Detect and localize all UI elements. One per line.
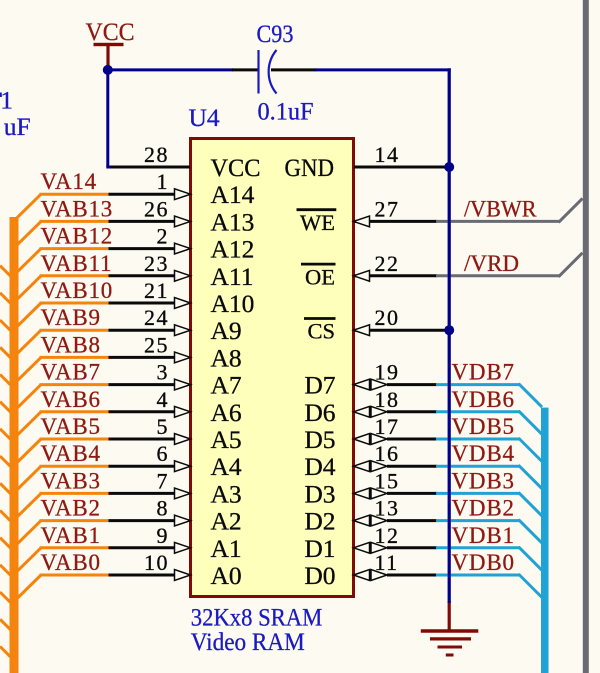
svg-text:A2: A2 (211, 507, 242, 536)
control bus (gray) vertical (583, 0, 589, 673)
chip pin name A5 (211, 425, 242, 454)
net label /VBWR (464, 196, 537, 221)
wire VAB11 bus entry diagonal (14, 276, 42, 303)
pin 10 input arrow (175, 570, 191, 581)
svg-text:VAB7: VAB7 (41, 360, 101, 385)
net label VAB13 (41, 196, 114, 221)
wire pin 3 stub (109, 383, 176, 386)
capacitor C91 partial value label 0.1uF (4, 112, 31, 141)
wire capacitor C93 left pin (232, 68, 258, 71)
wire VAB0 bus entry diagonal (14, 575, 42, 602)
svg-text:13: 13 (375, 496, 400, 521)
wire VAB2 horizontal orange (40, 519, 110, 522)
wire /VBWR diagonal to bus (559, 198, 583, 222)
svg-text:VDB5: VDB5 (452, 414, 515, 439)
wire pin 13 stub (387, 519, 437, 522)
pin 15 bidirectional arrow (354, 488, 388, 499)
wire pin 15 stub (387, 492, 437, 495)
wire pin 26 stub (109, 220, 176, 223)
svg-text:uF: uF (4, 112, 31, 141)
pin number 2 (157, 224, 170, 249)
net label VAB4 (41, 441, 101, 466)
pin 25 input arrow (175, 352, 191, 363)
svg-text:28: 28 (144, 142, 169, 167)
svg-text:22: 22 (375, 251, 400, 276)
wire VAB13 horizontal orange (40, 220, 110, 223)
power symbol VCC bar (94, 43, 124, 46)
chip pin name A4 (211, 452, 242, 481)
wire pin 17 stub (387, 438, 437, 441)
svg-text:21: 21 (144, 278, 169, 303)
wire pin 9 stub (109, 546, 176, 549)
address bus entries from left edge (0, 266, 12, 658)
svg-text:A6: A6 (211, 398, 242, 427)
wire VAB4 horizontal orange (40, 465, 110, 468)
svg-text:1: 1 (157, 169, 170, 194)
pin number 27 (375, 196, 400, 221)
wire pin 22 OE stub (354, 274, 437, 277)
svg-text:U4: U4 (189, 103, 220, 132)
wire VDB1 horizontal (cyan) (436, 546, 520, 549)
svg-text:D6: D6 (304, 398, 335, 427)
chip pin name A1 (211, 534, 242, 563)
chip pin name A8 (211, 343, 242, 372)
svg-text:Video RAM: Video RAM (191, 627, 305, 656)
svg-text:17: 17 (375, 414, 400, 439)
svg-text:4: 4 (157, 387, 170, 412)
chip pin name D3 (304, 479, 335, 508)
svg-text:VAB13: VAB13 (41, 196, 114, 221)
wire VAB6 bus entry diagonal (14, 412, 42, 439)
chip pin name A11 (211, 262, 254, 291)
pin 24 input arrow (175, 325, 191, 336)
net label VDB0 (452, 550, 515, 575)
pin 2 input arrow (175, 243, 191, 254)
pin 22 input arrow (354, 270, 370, 281)
svg-text:A7: A7 (211, 371, 242, 400)
chip pin name A14 (211, 180, 255, 209)
chip pin name A12 (211, 235, 255, 264)
wire pin 18 stub (387, 410, 437, 413)
svg-text:A3: A3 (211, 479, 242, 508)
chip pin name D4 (304, 452, 335, 481)
wire VAB12 horizontal orange (40, 247, 110, 250)
wire pin 12 stub (387, 546, 437, 549)
pin number 3 (157, 360, 170, 385)
wire /VRD diagonal to bus (559, 253, 583, 277)
net label VAB7 (41, 360, 101, 385)
wire pin 27 WE stub (354, 220, 437, 223)
svg-text:/VBWR: /VBWR (464, 196, 537, 221)
pin number 25 (144, 332, 169, 357)
wire pin 24 stub (109, 329, 176, 332)
wire VAB5 bus entry diagonal (14, 439, 42, 466)
wire VAB1 bus entry diagonal (14, 548, 42, 575)
wire VA14 horizontal orange (40, 193, 110, 196)
wire VAB5 horizontal orange (40, 438, 110, 441)
wire pin 28 VCC stub (111, 166, 190, 169)
ground bar 1 (421, 629, 479, 632)
wire pin 4 stub (109, 410, 176, 413)
wire pin 25 stub (109, 356, 176, 359)
svg-text:D7: D7 (304, 371, 335, 400)
svg-text:11: 11 (375, 550, 399, 575)
wire pin 6 stub (109, 465, 176, 468)
wire GND net vertical overlay (448, 68, 451, 603)
pin number 7 (157, 468, 170, 493)
svg-text:25: 25 (144, 332, 169, 357)
pin number 17 (375, 414, 400, 439)
wire pin 21 stub (109, 302, 176, 305)
wire GND net vertical (448, 68, 451, 603)
net label VAB3 (41, 468, 101, 493)
wire VAB7 horizontal orange (40, 383, 110, 386)
chip pin name A7 (211, 371, 242, 400)
pin 7 input arrow (175, 488, 191, 499)
pin 27 input arrow (354, 216, 370, 227)
svg-text:CS: CS (307, 319, 335, 344)
wire pin 10 stub (109, 574, 176, 577)
svg-text:A4: A4 (211, 452, 242, 481)
capacitor C93 plate left (257, 50, 259, 94)
svg-text:A13: A13 (211, 207, 255, 236)
net label VAB1 (41, 523, 101, 548)
svg-text:VAB2: VAB2 (41, 496, 101, 521)
pin number 18 (375, 387, 400, 412)
svg-text:GND: GND (285, 153, 335, 182)
svg-text:VDB1: VDB1 (452, 523, 515, 548)
svg-text:A10: A10 (211, 289, 255, 318)
svg-text:VDB2: VDB2 (452, 496, 515, 521)
ground bar 2 (430, 637, 471, 640)
pin 18 bidirectional arrow (354, 406, 388, 417)
svg-text:C91: C91 (0, 86, 13, 115)
svg-text:26: 26 (144, 196, 169, 221)
svg-text:A8: A8 (211, 343, 242, 372)
svg-text:16: 16 (375, 441, 400, 466)
net label VDB4 (452, 441, 515, 466)
wire VAB4 bus entry diagonal (14, 466, 42, 493)
svg-text:27: 27 (375, 196, 400, 221)
chip type label 32Kx8 SRAM (191, 602, 322, 631)
wire VAB6 horizontal orange (40, 410, 110, 413)
svg-text:VAB11: VAB11 (41, 251, 113, 276)
svg-text:20: 20 (375, 305, 400, 330)
chip pin name A0 (211, 561, 242, 590)
pin number 13 (375, 496, 400, 521)
net label VDB7 (452, 360, 515, 385)
svg-text:D1: D1 (304, 534, 335, 563)
wire pin 2 stub (109, 247, 176, 250)
pin number 24 (144, 305, 169, 330)
pin number 4 (157, 387, 170, 412)
svg-text:23: 23 (144, 251, 169, 276)
svg-text:18: 18 (375, 387, 400, 412)
wire VDB6 horizontal (cyan) (436, 410, 520, 413)
ground stem (448, 601, 451, 631)
svg-text:VAB0: VAB0 (41, 550, 101, 575)
svg-text:VDB4: VDB4 (452, 441, 515, 466)
chip pin name A2 (211, 507, 242, 536)
net label VAB8 (41, 332, 101, 357)
svg-text:VAB1: VAB1 (41, 523, 101, 548)
wire VAB10 bus entry diagonal (14, 303, 42, 330)
chip pin name D1 (304, 534, 335, 563)
chip pin name A9 (211, 316, 242, 345)
ground bar 3 (438, 646, 463, 649)
svg-text:3: 3 (157, 360, 170, 385)
svg-text:12: 12 (375, 523, 400, 548)
svg-text:VCC: VCC (211, 153, 261, 182)
wire pin 23 stub (109, 274, 176, 277)
chip U4 designator label (189, 103, 220, 132)
ground bar 4 (446, 654, 454, 657)
chip type label Video RAM (191, 627, 305, 656)
pin number 5 (157, 414, 170, 439)
wire VDB7 horizontal (cyan) (436, 383, 520, 386)
wire VDB7 diagonal to data bus (519, 384, 543, 408)
wire pin 8 stub (109, 519, 176, 522)
wire VDB3 horizontal (cyan) (436, 492, 520, 495)
wire pin 5 stub (109, 438, 176, 441)
pin number 26 (144, 196, 169, 221)
wire /VRD horizontal (gray) (436, 274, 560, 277)
net label VAB9 (41, 305, 101, 330)
svg-text:VAB6: VAB6 (41, 387, 101, 412)
svg-text:VA14: VA14 (41, 169, 97, 194)
wire VDB2 horizontal (cyan) (436, 519, 520, 522)
wire VDB4 diagonal to data bus (519, 465, 543, 489)
wire VAB9 bus entry diagonal (14, 330, 42, 357)
pin number 14 (375, 142, 400, 167)
SRAM chip U4 body (191, 139, 354, 597)
chip pin name CS (active low) (304, 319, 336, 344)
wire VAB9 horizontal orange (40, 329, 110, 332)
wire pin 1 stub (109, 193, 176, 196)
chip pin name OE (active low) (301, 264, 336, 289)
capacitor C93 value label 0.1uF (258, 97, 314, 126)
svg-text:VDB0: VDB0 (452, 550, 515, 575)
chip pin name VCC (211, 153, 261, 182)
pin number 8 (157, 496, 170, 521)
pin 3 input arrow (175, 379, 191, 390)
data bus (cyan) vertical (541, 408, 549, 673)
svg-text:VDB7: VDB7 (452, 360, 515, 385)
chip pin name A3 (211, 479, 242, 508)
svg-text:VAB9: VAB9 (41, 305, 101, 330)
pin 21 input arrow (175, 298, 191, 309)
wire VAB11 horizontal orange (40, 274, 110, 277)
svg-text:10: 10 (144, 550, 169, 575)
chip pin name A6 (211, 398, 242, 427)
pin number 19 (375, 360, 400, 385)
wire VAB8 horizontal orange (40, 356, 110, 359)
wire capacitor to GND net vertical (315, 68, 451, 71)
pin number 12 (375, 523, 400, 548)
svg-text:19: 19 (375, 360, 400, 385)
svg-text:14: 14 (375, 142, 400, 167)
wire VAB10 horizontal orange (40, 302, 110, 305)
wire pin 19 stub (387, 383, 437, 386)
pin number 28 (144, 142, 169, 167)
net label VDB1 (452, 523, 515, 548)
net label /VRD (464, 251, 519, 276)
net label VAB2 (41, 496, 101, 521)
pin number 23 (144, 251, 169, 276)
pin 1 input arrow (175, 189, 191, 200)
wire pin 11 stub (387, 574, 437, 577)
wire VDB2 diagonal to data bus (519, 520, 543, 544)
svg-text:A0: A0 (211, 561, 242, 590)
svg-text:5: 5 (157, 414, 170, 439)
wire VAB8 bus entry diagonal (14, 357, 42, 384)
wire pin 14 GND stub (354, 166, 447, 169)
svg-text:VDB6: VDB6 (452, 387, 515, 412)
net label VDB5 (452, 414, 515, 439)
pin 4 input arrow (175, 406, 191, 417)
pin number 9 (157, 523, 170, 548)
chip pin name D5 (304, 425, 335, 454)
pin 12 bidirectional arrow (354, 542, 388, 553)
wire VDB5 horizontal (cyan) (436, 438, 520, 441)
pin number 20 (375, 305, 400, 330)
svg-text:A11: A11 (211, 262, 254, 291)
wire VAB3 bus entry diagonal (14, 493, 42, 520)
wire VAB0 horizontal orange (40, 574, 110, 577)
address bus (orange) vertical (10, 217, 19, 673)
svg-text:7: 7 (157, 468, 170, 493)
svg-text:C93: C93 (257, 19, 294, 48)
wire VDB6 diagonal to data bus (519, 411, 543, 435)
svg-text:OE: OE (305, 264, 335, 289)
svg-text:VAB3: VAB3 (41, 468, 101, 493)
pin number 16 (375, 441, 400, 466)
pin number 21 (144, 278, 169, 303)
wire VDB5 diagonal to data bus (519, 438, 543, 462)
pin 26 input arrow (175, 216, 191, 227)
wire VDB3 diagonal to data bus (519, 492, 543, 516)
capacitor C93 plate right (curved) (269, 50, 277, 94)
pin 11 bidirectional arrow (354, 570, 388, 581)
net label VDB3 (452, 468, 515, 493)
svg-text:15: 15 (375, 468, 400, 493)
junction GND net at pin 14 (444, 162, 454, 172)
net label VDB6 (452, 387, 515, 412)
svg-text:VDB3: VDB3 (452, 468, 515, 493)
pin number 6 (157, 441, 170, 466)
svg-text:D5: D5 (304, 425, 335, 454)
svg-text:6: 6 (157, 441, 170, 466)
wire VA14 bus entry diagonal (14, 194, 42, 221)
pin 5 input arrow (175, 434, 191, 445)
svg-text:WE: WE (300, 210, 335, 235)
svg-text:9: 9 (157, 523, 170, 548)
chip pin name D6 (304, 398, 335, 427)
pin 23 input arrow (175, 270, 191, 281)
svg-text:A5: A5 (211, 425, 242, 454)
net label VAB6 (41, 387, 101, 412)
net label VDB2 (452, 496, 515, 521)
chip pin name D0 (304, 561, 335, 590)
svg-text:0.1uF: 0.1uF (258, 97, 314, 126)
pin 17 bidirectional arrow (354, 434, 388, 445)
svg-text:D2: D2 (304, 507, 335, 536)
wire VDB4 horizontal (cyan) (436, 465, 520, 468)
svg-text:VAB10: VAB10 (41, 278, 114, 303)
capacitor C91 partial designator label (0, 86, 13, 115)
wire pin 20 CS stub (354, 329, 447, 332)
chip pin name D2 (304, 507, 335, 536)
pin 6 input arrow (175, 461, 191, 472)
wire VAB7 bus entry diagonal (14, 385, 42, 412)
pin number 10 (144, 550, 169, 575)
wire VDB0 diagonal to data bus (519, 574, 543, 598)
wire VCC net junction to capacitor (108, 68, 233, 71)
net label VAB11 (41, 251, 113, 276)
svg-text:VAB8: VAB8 (41, 332, 101, 357)
svg-text:A12: A12 (211, 235, 255, 264)
pin number 22 (375, 251, 400, 276)
chip pin name GND (285, 153, 335, 182)
svg-text:A14: A14 (211, 180, 255, 209)
wire VAB2 bus entry diagonal (14, 521, 42, 548)
svg-text:/VRD: /VRD (464, 251, 519, 276)
net label VAB10 (41, 278, 114, 303)
chip pin name WE (active low) (297, 210, 337, 235)
svg-text:D3: D3 (304, 479, 335, 508)
pin 16 bidirectional arrow (354, 461, 388, 472)
wire VCC net vertical to pin 28 (106, 70, 112, 167)
wire /VBWR horizontal (gray) (436, 220, 560, 223)
svg-text:A1: A1 (211, 534, 242, 563)
net label VAB12 (41, 224, 114, 249)
junction VCC node (103, 65, 113, 75)
wire VDB0 horizontal (cyan) (436, 574, 520, 577)
svg-text:VAB5: VAB5 (41, 414, 101, 439)
svg-text:2: 2 (157, 224, 170, 249)
wire VAB1 horizontal orange (40, 546, 110, 549)
svg-text:A9: A9 (211, 316, 242, 345)
wire pin 16 stub (387, 465, 437, 468)
chip pin name A10 (211, 289, 255, 318)
pin 20 input arrow (354, 325, 370, 336)
svg-text:VAB4: VAB4 (41, 441, 101, 466)
pin number 15 (375, 468, 400, 493)
svg-text:D4: D4 (304, 452, 335, 481)
power symbol VCC label (86, 17, 135, 46)
net label VAB5 (41, 414, 101, 439)
chip pin name D7 (304, 371, 335, 400)
wire VAB13 bus entry diagonal (14, 221, 42, 248)
wire VAB3 horizontal orange (40, 492, 110, 495)
net label VA14 (41, 169, 97, 194)
pin 9 input arrow (175, 542, 191, 553)
svg-text:8: 8 (157, 496, 170, 521)
svg-text:VCC: VCC (86, 17, 135, 46)
power symbol VCC stem (106, 46, 109, 67)
wire capacitor C93 right pin (271, 68, 316, 71)
svg-text:D0: D0 (304, 561, 335, 590)
pin 19 bidirectional arrow (354, 379, 388, 390)
pin number 1 (157, 169, 170, 194)
capacitor C93 designator label (257, 19, 294, 48)
svg-text:VAB12: VAB12 (41, 224, 114, 249)
wire pin 7 stub (109, 492, 176, 495)
svg-text:24: 24 (144, 305, 169, 330)
pin 8 input arrow (175, 515, 191, 526)
wire VAB12 bus entry diagonal (14, 249, 42, 276)
net label VAB0 (41, 550, 101, 575)
